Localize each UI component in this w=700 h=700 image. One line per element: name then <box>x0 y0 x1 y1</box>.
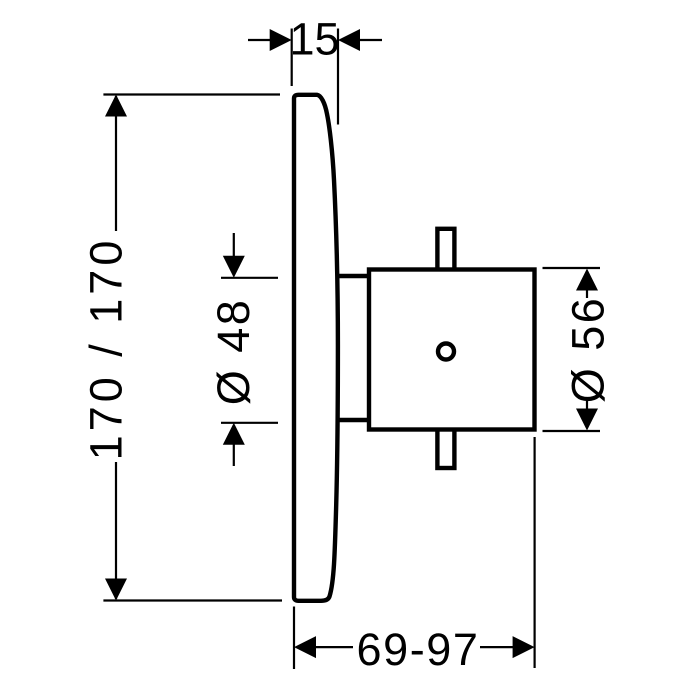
svg-text:Ø 48: Ø 48 <box>208 298 259 406</box>
svg-text:69-97: 69-97 <box>356 624 479 675</box>
svg-text:15: 15 <box>289 14 339 65</box>
svg-text:Ø 56: Ø 56 <box>563 296 614 404</box>
svg-text:170 / 170: 170 / 170 <box>81 237 132 461</box>
